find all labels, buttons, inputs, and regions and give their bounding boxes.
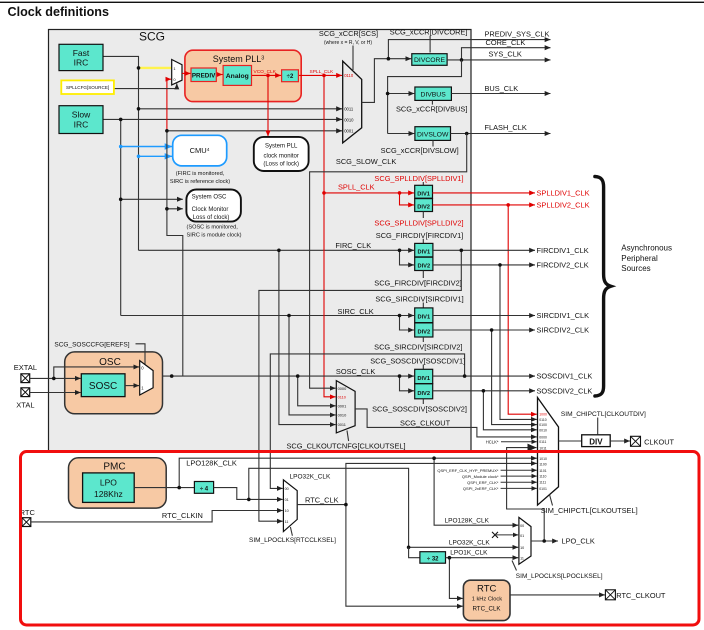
svg-text:LPO32K_CLK: LPO32K_CLK — [290, 473, 331, 480]
svg-text:1011: 1011 — [539, 446, 546, 450]
PREDIV box — [191, 68, 216, 82]
svg-text:SCG_SOSCDIV[SOSCDIV2]: SCG_SOSCDIV[SOSCDIV2] — [372, 405, 467, 414]
Slow IRC block — [59, 106, 103, 134]
svg-text:SCG_xCCR[DIVSLOW]: SCG_xCCR[DIVSLOW] — [381, 146, 459, 155]
svg-text:QSPI_Module clock*: QSPI_Module clock* — [462, 474, 499, 479]
svg-text:10: 10 — [285, 509, 289, 513]
wire: DIVSLOW out FLASH_CLK — [451, 133, 551, 135]
svg-text:SOSCDIV1_CLK: SOSCDIV1_CLK — [537, 372, 593, 381]
XTAL pad — [16, 388, 34, 410]
svg-text:0010: 0010 — [539, 428, 547, 432]
wire: FIRC branch down to SCG CLKOUT mux input 0011 — [279, 250, 336, 424]
SPLL source mux — [172, 60, 182, 85]
wire: LPO_CLK output — [531, 540, 558, 542]
wire: red VCO tap down to System PLL clock monitor — [267, 75, 269, 136]
RTC clock mux (SIM_LPOCLKS[RTCCLKSEL]) — [283, 480, 297, 532]
wire: LPO32K into divide-by-32 — [409, 547, 420, 557]
SOSC box — [81, 374, 125, 397]
svg-text:clock monitor: clock monitor — [264, 153, 299, 159]
wire: DIVBUS out BUS_CLK — [451, 93, 550, 95]
svg-text:IRC: IRC — [74, 58, 89, 68]
FIRC DIV2 box — [415, 257, 433, 270]
wire: blue CMU input from FIRC — [139, 155, 173, 157]
svg-text:00: 00 — [520, 524, 524, 528]
svg-text:Clock definitions: Clock definitions — [8, 5, 109, 19]
svg-text:SOSC: SOSC — [89, 381, 117, 392]
svg-text:Sources: Sources — [621, 264, 650, 273]
svg-text:(where x = R, V, or H): (where x = R, V, or H) — [324, 40, 372, 46]
wire: red mux out to PREDIV — [182, 72, 191, 74]
wire: EXTAL into SOSC — [30, 377, 81, 379]
wire: SIRCDIV1_CLK output — [433, 315, 535, 317]
svg-text:RTC_CLK: RTC_CLK — [305, 496, 339, 505]
wire: CLKOUTSEL select connector — [550, 495, 553, 506]
wire: red SPLLDIV1_CLK output — [433, 192, 536, 194]
wire: SCG_SLOW_CLK loop to SCG CLKOUT mux input 0000 — [310, 134, 467, 389]
svg-text:RTC_CLK: RTC_CLK — [472, 605, 501, 612]
svg-text:SIRCDIV1_CLK: SIRCDIV1_CLK — [537, 311, 590, 320]
wire: LPO128K down to LPO mux input 00 — [434, 458, 518, 525]
wire: SOSC tap to System OSC clock monitor — [167, 208, 183, 210]
wire: red SPLLDIV row to SPLL DIV1 — [324, 192, 414, 194]
wire: divide-by-4 out to RTC mux input 01 — [214, 488, 283, 500]
DIVBUS box — [415, 87, 452, 100]
svg-text:SOSCDIV2_CLK: SOSCDIV2_CLK — [537, 386, 593, 395]
page top rule — [0, 2, 704, 3]
wire: SOSCDIV1_CLK output — [433, 375, 535, 377]
svg-text:SCG_FIRCDIV[FIRCDIV2]: SCG_FIRCDIV[FIRCDIV2] — [374, 279, 461, 288]
wire: XTAL into SOSC — [30, 392, 81, 394]
svg-text:1110: 1110 — [539, 475, 546, 479]
svg-text:Slow: Slow — [72, 110, 91, 120]
svg-text:SCG_SPLLDIV[SPLLDIV1]: SCG_SPLLDIV[SPLLDIV1] — [374, 174, 463, 183]
svg-text:128Khz: 128Khz — [94, 489, 123, 499]
wire: DIVCORE register connector — [429, 36, 431, 53]
svg-text:11: 11 — [520, 556, 524, 560]
svg-text:LPO: LPO — [100, 478, 117, 488]
wire: into DIVSLOW — [388, 133, 415, 135]
wire: SCS select line — [352, 46, 354, 71]
svg-text:00: 00 — [285, 487, 289, 491]
svg-text:DIV2: DIV2 — [417, 391, 430, 397]
DIV box — [582, 435, 611, 447]
SIRC DIV1 box — [415, 308, 433, 323]
wire: FIRC branch to FIRC DIV2 — [400, 250, 415, 265]
SIRC DIV2 box — [415, 323, 433, 337]
wire: core chain down to DIVBUS and DIVSLOW — [388, 60, 462, 134]
svg-text:Asynchronous: Asynchronous — [621, 243, 672, 252]
wire: SOSCDIV1 register connector — [422, 364, 424, 369]
wire: into DIVBUS — [388, 93, 415, 95]
svg-text:DIV2: DIV2 — [417, 329, 430, 335]
wire: SPLLCFG[SOURCE] select to SPLL source mux — [114, 84, 177, 89]
svg-text:11: 11 — [285, 520, 289, 524]
SCS system clock mux — [343, 61, 362, 143]
asynchronous sources brace — [595, 177, 611, 397]
System PLL clock monitor bubble — [254, 137, 309, 171]
svg-text:SIRC is reference clock): SIRC is reference clock) — [170, 179, 230, 185]
wire: SCS mux output up to DIVCORE row — [362, 59, 412, 103]
wire: SOSC row to SCS mux input 0001 — [167, 130, 342, 132]
System PLL block — [185, 50, 301, 101]
svg-text:SCG_xCCR[DIVBUS]: SCG_xCCR[DIVBUS] — [396, 105, 467, 114]
wire: SIRCDIV2 down to SIM CLKOUT mux — [492, 330, 537, 425]
no-connect X on LPO mux input 01 — [492, 532, 498, 538]
wire: yellow FIRC to SPLL source mux input 1 — [139, 67, 172, 69]
svg-text:BUS_CLK: BUS_CLK — [485, 84, 519, 93]
svg-text:Clock Monitor: Clock Monitor — [192, 207, 229, 213]
svg-text:÷ 32: ÷ 32 — [427, 557, 439, 563]
CMU block — [173, 135, 227, 166]
svg-text:FIRCDIV1_CLK: FIRCDIV1_CLK — [537, 246, 589, 255]
svg-text:SCG_CLKOUT: SCG_CLKOUT — [400, 419, 451, 428]
wire: DIVCORE out SYS_CLK — [447, 59, 550, 61]
wire: SOSCDIV2 register connector — [422, 399, 424, 404]
svg-text:SPLL_CLK: SPLL_CLK — [338, 183, 375, 192]
wire: red div2 to SCS mux input 0110 (SPLL_CLK) — [298, 74, 342, 76]
wire: FIRC row to SCS mux input 0011 — [139, 108, 343, 110]
svg-text:01: 01 — [520, 534, 524, 538]
wire: LPO1K_CLK row to LPO mux input 11 — [446, 557, 519, 559]
wire: FIRCDIV2_CLK output — [433, 264, 535, 266]
red junction dots on PLL path — [266, 74, 270, 78]
svg-text:1000: 1000 — [539, 413, 547, 417]
svg-text:QSPI_2xERF_CLK*: QSPI_2xERF_CLK* — [463, 486, 499, 491]
svg-text:1100: 1100 — [539, 463, 546, 467]
wire: blue CMU input from SIRC — [121, 146, 172, 148]
svg-text:SYS_CLK: SYS_CLK — [489, 49, 522, 58]
wire: LPO1K down into RTC block — [449, 558, 462, 599]
wire: FIRCDIV1_CLK output — [433, 249, 535, 251]
svg-text:PMC: PMC — [103, 462, 125, 473]
svg-text:QSPI_ERF_CLK_HYP_PREMUX*: QSPI_ERF_CLK_HYP_PREMUX* — [437, 468, 499, 473]
OSC block — [65, 352, 163, 414]
wire: FIRCDIV1 register connector — [422, 239, 424, 243]
svg-text:SPLLCFG[SOURCE]: SPLLCFG[SOURCE] — [66, 85, 109, 90]
wire: red SPLL_CLK down to SPLLDIV row and SCG CLKOUT mux input 0110 — [324, 75, 336, 396]
svg-text:DIV1: DIV1 — [417, 315, 430, 321]
HCLK* input — [501, 441, 537, 443]
svg-text:SIM_LPOCLKS[LPOCLKSEL]: SIM_LPOCLKS[LPOCLKSEL] — [516, 573, 603, 580]
svg-text:SPLL_CLK: SPLL_CLK — [310, 69, 335, 75]
SCG block outline — [49, 30, 472, 452]
svg-text:DIV1: DIV1 — [417, 376, 430, 382]
divide-by-32 box — [420, 552, 446, 564]
svg-text:1101: 1101 — [539, 469, 546, 473]
svg-text:0110: 0110 — [344, 73, 354, 78]
wire: CLKOUTDIV connector — [597, 418, 599, 435]
svg-text:SCG_SIRCDIV[SIRCDIV2]: SCG_SIRCDIV[SIRCDIV2] — [374, 342, 462, 351]
wire: red Analog to div2 (VCO_CLK) — [252, 74, 282, 76]
svg-text:PREDIV: PREDIV — [192, 72, 216, 79]
svg-text:IRC: IRC — [74, 119, 89, 129]
svg-text:(FIRC is monitored,: (FIRC is monitored, — [176, 171, 225, 177]
wire: SPLLDIV1 register connector — [422, 182, 424, 185]
wire: RTC_CLKIN to RTC mux input 10 — [31, 511, 283, 522]
svg-text:LPO32K_CLK: LPO32K_CLK — [449, 539, 490, 546]
RTC_CLKOUT pad — [605, 590, 615, 600]
wire: LPO output into divide-by-4 — [134, 487, 194, 489]
SIM red box (bottom region) — [21, 452, 700, 626]
svg-text:SIRC_CLK: SIRC_CLK — [338, 307, 374, 316]
wire: SOSCDIV2_CLK output — [433, 390, 535, 392]
svg-text:0010: 0010 — [338, 413, 347, 418]
svg-text:0011: 0011 — [338, 422, 346, 427]
svg-text:SCG_xCCR[DIVCORE]: SCG_xCCR[DIVCORE] — [390, 27, 468, 36]
QSPI_ERF_CLK* input — [501, 481, 537, 483]
svg-text:(SOSC is monitored,: (SOSC is monitored, — [187, 225, 239, 231]
svg-text:SCG_SLOW_CLK: SCG_SLOW_CLK — [336, 157, 396, 166]
svg-text:DIVCORE: DIVCORE — [414, 57, 445, 64]
svg-text:DIV: DIV — [589, 437, 603, 446]
svg-text:0000: 0000 — [539, 435, 547, 439]
PMC block — [69, 458, 167, 508]
SIM CLKOUT mux (SIM_CHIPCTL[CLKOUTSEL]) — [538, 398, 559, 506]
svg-text:DIV2: DIV2 — [417, 263, 430, 269]
svg-text:0110: 0110 — [539, 418, 546, 422]
wire: SIRC tap to System OSC clock monitor — [121, 198, 183, 200]
LPO clock mux (SIM_LPOCLKS[LPOCLKSEL]) — [519, 517, 531, 564]
svg-text:1 kHz Clock: 1 kHz Clock — [472, 597, 502, 603]
svg-text:Loss of clock): Loss of clock) — [193, 215, 230, 221]
svg-text:0011: 0011 — [344, 107, 354, 112]
svg-text:SCG_SIRCDIV[SIRCDIV1]: SCG_SIRCDIV[SIRCDIV1] — [375, 295, 463, 304]
Analog box — [223, 66, 251, 86]
svg-text:1111: 1111 — [539, 481, 546, 485]
QSPI_Module clock* input — [501, 475, 537, 477]
wire: SOSC_CLK row from OSC mux to SOSC DIV1 — [153, 375, 414, 377]
svg-text:RTC_CLKOUT: RTC_CLKOUT — [616, 591, 666, 600]
svg-text:QSPI_ERF_CLK*: QSPI_ERF_CLK* — [467, 480, 499, 485]
wire: FIRCDIV2 down to SIM CLKOUT mux — [500, 265, 537, 420]
svg-text:DIVBUS: DIVBUS — [420, 92, 446, 99]
DIVCORE box — [412, 54, 447, 66]
svg-text:CORE_CLK: CORE_CLK — [486, 38, 526, 47]
svg-text:RTC_CLKIN: RTC_CLKIN — [162, 511, 203, 520]
svg-text:CMU4: CMU4 — [190, 146, 210, 155]
wire: LPO128K_CLK row to SIM CLKOUT mux — [179, 458, 537, 487]
divide-by-4 box — [194, 482, 213, 494]
wire: CORE_CLK tap — [462, 48, 551, 60]
SPLL DIV2 box — [415, 199, 433, 212]
CLKOUT pad — [631, 436, 641, 446]
svg-text:DIV1: DIV1 — [417, 250, 430, 256]
Fast IRC block — [59, 44, 103, 70]
wire: SIM CLKOUT mux output to DIV — [559, 440, 582, 442]
SCG CLKOUT select mux (SCG_CLKOUTCNFG) — [336, 381, 355, 433]
wire: FIRC_CLK row to FIRC DIV1 — [139, 249, 415, 251]
svg-text:HCLK*: HCLK* — [486, 440, 499, 445]
svg-text:EXTAL: EXTAL — [14, 363, 37, 372]
wire: RTC_CLK down into RTC block — [346, 505, 463, 607]
SPLL DIV1 box — [415, 185, 433, 198]
svg-text:0001: 0001 — [338, 404, 347, 409]
wire: red SOSC to SPLL source mux input 0 — [166, 79, 168, 131]
RTC pad — [20, 508, 36, 526]
SPLLCFG[SOURCE] register box — [61, 80, 114, 94]
svg-text:SIRC is module clock): SIRC is module clock) — [187, 233, 242, 239]
FIRC DIV1 box — [415, 243, 433, 257]
svg-text:0110: 0110 — [338, 395, 347, 400]
wire: SOSC output to OSC mux input 1 — [125, 385, 139, 387]
svg-text:LPO_CLK: LPO_CLK — [562, 537, 595, 546]
wire: X stub into LPO mux input 01 — [495, 534, 518, 536]
wire: SOSC branch down to SCG CLKOUT mux input 0001 — [298, 376, 336, 406]
wire: red PREDIV to Analog — [216, 74, 222, 76]
svg-text:÷ 4: ÷ 4 — [200, 487, 209, 493]
wire: LPOCLKSEL select connector — [512, 561, 517, 571]
wire: SPLLDIV2 register connector — [422, 212, 424, 219]
svg-text:LPO1K_CLK: LPO1K_CLK — [450, 550, 488, 557]
svg-text:SCG_xCCR[SCS]: SCG_xCCR[SCS] — [319, 29, 378, 38]
wire: DIVBUS register connector — [431, 100, 433, 104]
junction dots upper-left — [137, 66, 141, 70]
wire: DIV to CLKOUT pad — [610, 440, 630, 442]
wire: FIRCDIV2 register connector — [422, 271, 424, 279]
wire: FIRCDIV1 loop to RTC clock mux input 11 — [259, 250, 461, 521]
svg-text:LPO128K_CLK: LPO128K_CLK — [186, 458, 237, 467]
svg-text:SIRCDIV2_CLK: SIRCDIV2_CLK — [537, 326, 590, 335]
svg-text:0100: 0100 — [539, 423, 547, 427]
svg-text:DIVSLOW: DIVSLOW — [417, 131, 449, 138]
wire: SIRCDIV1 register connector — [422, 303, 424, 308]
wire: SIRCDIV2_CLK output — [433, 329, 535, 331]
svg-text:SCG_CLKOUTCNFG[CLKOUTSEL]: SCG_CLKOUTCNFG[CLKOUTSEL] — [286, 442, 405, 451]
wire: SIRC branch to SIRC DIV2 — [400, 316, 415, 331]
OSC bypass mux — [140, 361, 153, 395]
svg-text:FLASH_CLK: FLASH_CLK — [485, 123, 527, 132]
QSPI_ERF_CLK_HYP_PREMUX* input — [501, 469, 537, 471]
svg-text:SPLLDIV1_CLK: SPLLDIV1_CLK — [537, 189, 590, 198]
wire: red branch to SPLL DIV2 — [400, 193, 415, 205]
SOSC DIV1 box — [415, 369, 433, 383]
wire: SOSCDIV2 down to SIM CLKOUT mux — [483, 391, 536, 430]
wire: Slow IRC output to SCS mux input 0010 — [103, 118, 342, 120]
svg-text:FIRC_CLK: FIRC_CLK — [335, 241, 371, 250]
EXTAL pad — [14, 363, 37, 383]
wire: SIRC branch down to SCG CLKOUT mux input 0010 — [289, 316, 336, 415]
svg-text:SIM_CHIPCTL[CLKOUTDIV]: SIM_CHIPCTL[CLKOUTDIV] — [561, 411, 646, 418]
wire: RTC_CLK up to SIM CLKOUT mux — [346, 463, 537, 504]
wire: LPO_CLK feedback into SIM CLKOUT mux — [507, 448, 545, 541]
svg-text:XTAL: XTAL — [16, 400, 34, 409]
wire: RTC_CLK output row — [297, 504, 346, 506]
svg-text:SIM_CHIPCTL[CLKOUTSEL]: SIM_CHIPCTL[CLKOUTSEL] — [541, 506, 638, 515]
wire: RTC block output to RTC_CLKOUT pad — [510, 594, 605, 596]
wire: SIRC vertical down — [120, 119, 122, 315]
svg-text:System OSC: System OSC — [192, 194, 227, 200]
svg-text:DIV2: DIV2 — [417, 205, 430, 211]
LPO 128Khz box — [83, 473, 135, 503]
wire: SIRCDIV2 register connector — [422, 337, 424, 342]
svg-text:01: 01 — [285, 498, 289, 502]
svg-text:Fast: Fast — [73, 48, 90, 58]
wire: red SPLLDIV2_CLK output — [433, 204, 536, 206]
System OSC clock monitor bubble — [186, 190, 241, 222]
wire: EXTAL bypass to OSC mux input 0 — [54, 367, 139, 379]
wire: LPO32K_CLK row across to LPO mux input 10 — [249, 468, 518, 547]
wire: Fast IRC output to FIRC vertical — [103, 56, 139, 250]
svg-text:System PLL3: System PLL3 — [213, 54, 265, 64]
svg-text:1010: 1010 — [539, 457, 547, 461]
svg-text:SOSC_CLK: SOSC_CLK — [336, 367, 376, 376]
svg-text:SPLLDIV2_CLK: SPLLDIV2_CLK — [537, 201, 590, 210]
wire: RTCCLKSEL select connector — [290, 527, 292, 536]
wire: SOSC vertical black (monitor leg + step to OSC output row) — [167, 131, 183, 376]
svg-text:Peripheral: Peripheral — [621, 254, 658, 263]
svg-text:System PLL: System PLL — [265, 143, 298, 149]
wire: CLKOUTCNFG select connector — [347, 431, 349, 442]
divide-by-2 box — [282, 70, 299, 82]
svg-text:÷2: ÷2 — [287, 74, 294, 80]
wire: SCG_CLKOUT route to SIM CLKOUT mux — [355, 409, 537, 437]
wire: PREDIV_SYS_CLK tap — [388, 40, 550, 59]
svg-text:FIRCDIV2_CLK: FIRCDIV2_CLK — [537, 261, 589, 270]
svg-text:SCG: SCG — [139, 30, 165, 44]
svg-text:RTC: RTC — [477, 584, 496, 595]
svg-text:SCG_SOSCDIV[SOSCDIV1]: SCG_SOSCDIV[SOSCDIV1] — [370, 357, 465, 366]
QSPI_2xERF_CLK* input — [501, 487, 537, 489]
wire: SOSCDIV1 loop to RTC clock mux input 00 — [270, 354, 464, 489]
svg-text:Analog: Analog — [226, 73, 249, 80]
wire: SOSC branch to SOSC DIV2 — [400, 376, 415, 391]
svg-text:DIV1: DIV1 — [417, 191, 430, 197]
SOSC DIV2 box — [415, 384, 433, 399]
svg-text:SCG_FIRCDIV[FIRCDIV1]: SCG_FIRCDIV[FIRCDIV1] — [376, 231, 463, 240]
svg-text:(Loss of lock): (Loss of lock) — [263, 161, 299, 167]
wire: red SPLLDIV2 down to SIM CLKOUT mux — [508, 205, 537, 414]
svg-text:LPO128K_CLK: LPO128K_CLK — [445, 518, 490, 525]
svg-text:CLKOUT: CLKOUT — [644, 437, 674, 446]
svg-text:0010: 0010 — [344, 117, 354, 122]
wire: DIVSLOW register connector — [432, 140, 434, 146]
svg-text:SIM_LPOCLKS[RTCCLKSEL]: SIM_LPOCLKS[RTCCLKSEL] — [249, 537, 336, 544]
svg-text:0111: 0111 — [539, 440, 546, 444]
RTC block — [463, 580, 510, 620]
wire: EREFS select connector — [136, 344, 146, 365]
DIVSLOW box — [415, 127, 451, 141]
svg-text:SCG_SPLLDIV[SPLLDIV2]: SCG_SPLLDIV[SPLLDIV2] — [374, 219, 463, 228]
svg-text:10: 10 — [520, 546, 524, 550]
wire: SIRC_CLK row to SIRC DIV1 — [121, 315, 414, 317]
svg-text:0000: 0000 — [338, 386, 347, 391]
svg-text:VCO_CLK: VCO_CLK — [254, 69, 277, 75]
svg-text:SCG_SOSCCFG[EREFS]: SCG_SOSCCFG[EREFS] — [54, 342, 129, 349]
svg-text:0001: 0001 — [344, 129, 354, 134]
svg-text:0101: 0101 — [539, 487, 547, 491]
